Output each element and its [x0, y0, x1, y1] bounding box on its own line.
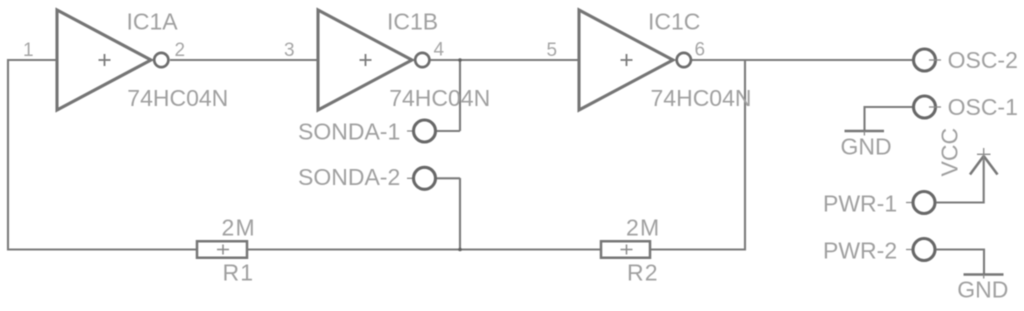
svg-text:IC1A: IC1A — [127, 9, 179, 35]
svg-text:GND: GND — [841, 134, 892, 160]
svg-text:2M: 2M — [222, 215, 256, 241]
wire net input IC1A (pin1 horizontal) — [8, 59, 57, 61]
wire SONDA-2 horizontal — [436, 177, 460, 179]
inverter IC1B body — [318, 10, 412, 110]
svg-text:IC1B: IC1B — [387, 9, 438, 35]
svg-text:SONDA-1: SONDA-1 — [298, 119, 400, 145]
wire output IC1C to OSC-2 — [692, 59, 913, 61]
IC1A output bubble — [154, 53, 168, 67]
svg-text:74HC04N: 74HC04N — [651, 85, 752, 111]
junction SONDA-1 tee — [458, 58, 462, 62]
svg-text:6: 6 — [695, 40, 706, 61]
wire PWR-1 to VCC — [936, 201, 984, 203]
svg-text:74HC04N: 74HC04N — [389, 85, 490, 111]
terminal PWR-1 — [906, 192, 935, 214]
svg-text:2: 2 — [175, 40, 186, 61]
wire bottom left segment to R1 — [7, 248, 197, 250]
resistor R2 body — [601, 241, 650, 258]
terminal PWR-2 — [906, 239, 935, 261]
supply symbol VCC arrow — [970, 148, 998, 175]
svg-text:SONDA-2: SONDA-2 — [298, 164, 400, 190]
svg-text:PWR-1: PWR-1 — [823, 191, 897, 217]
wire bottom right segment R2 to vertical — [651, 248, 746, 250]
inverter IC1C body — [579, 10, 673, 110]
wire SONDA-1 horizontal — [436, 130, 460, 132]
svg-text:74HC04N: 74HC04N — [127, 85, 228, 111]
wire node between pin4 and pin5 — [430, 59, 579, 61]
svg-text:OSC-1: OSC-1 — [948, 94, 1018, 120]
svg-text:R2: R2 — [627, 260, 659, 286]
svg-text:GND: GND — [957, 277, 1008, 303]
junction SONDA-2 tee on bottom net — [458, 248, 462, 252]
wire PWR-2 to ground — [936, 248, 984, 250]
svg-text:1: 1 — [23, 40, 34, 61]
resistor R1 body — [197, 241, 247, 258]
svg-text:VCC: VCC — [937, 128, 963, 177]
terminal OSC-2 — [914, 49, 942, 71]
svg-text:4: 4 — [434, 40, 445, 61]
wire SONDA-2 drop vertical — [459, 178, 461, 250]
ground symbol GND (right) — [964, 275, 1004, 279]
svg-text:5: 5 — [547, 40, 558, 61]
ground symbol GND (left) — [845, 131, 885, 136]
svg-text:2M: 2M — [626, 215, 660, 241]
IC1C output bubble — [677, 53, 691, 67]
wire bottom middle segment R1 to R2 — [247, 248, 601, 250]
wire ground drop right — [983, 249, 985, 275]
IC1B output bubble — [415, 53, 429, 67]
svg-text:IC1C: IC1C — [648, 9, 700, 35]
svg-text:R1: R1 — [223, 260, 255, 286]
terminal SONDA-2 — [407, 167, 436, 189]
terminal OSC-1 — [914, 96, 942, 118]
wire feedback left vertical — [7, 59, 9, 251]
wire right feedback vertical — [744, 60, 746, 251]
wire ground drop — [863, 106, 865, 131]
inverter IC1A body — [57, 10, 151, 110]
wire OSC-1 to ground — [865, 106, 913, 108]
svg-text:OSC-2: OSC-2 — [948, 47, 1018, 73]
svg-text:PWR-2: PWR-2 — [823, 238, 897, 264]
wire VCC vertical — [983, 156, 985, 204]
terminal SONDA-1 — [407, 120, 436, 142]
wire SONDA-1 drop vertical — [459, 60, 461, 131]
wire node between pin2 and pin3 — [170, 59, 318, 61]
svg-text:3: 3 — [284, 40, 295, 61]
